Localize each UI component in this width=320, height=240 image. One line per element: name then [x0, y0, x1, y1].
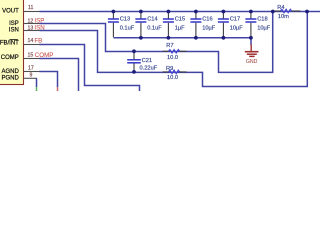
- svg-text:11: 11: [28, 5, 33, 11]
- wire AGND down: [40, 72, 58, 88]
- svg-text:12: 12: [28, 18, 34, 24]
- svg-text:R4: R4: [277, 5, 284, 11]
- svg-text:C14: C14: [147, 16, 157, 22]
- pin AGND (17) pin line: [24, 71, 40, 73]
- junction node C14 bottom: [139, 36, 143, 40]
- IC block U? (sheet part, cropped at left/top): [0, 0, 24, 85]
- svg-text:VOUT: VOUT: [2, 9, 19, 15]
- svg-text:10µF: 10µF: [230, 26, 244, 32]
- junction node C16 top: [194, 10, 198, 14]
- svg-text:AGND: AGND: [1, 69, 19, 75]
- svg-text:R9: R9: [166, 66, 173, 72]
- wire ISN to R9 to R4 right: [40, 12, 308, 87]
- capacitor C18: [245, 12, 270, 37]
- capacitor C14: [135, 12, 162, 37]
- junction node C14 top: [139, 10, 143, 14]
- svg-text:13: 13: [28, 26, 34, 32]
- svg-text:1µF: 1µF: [175, 26, 185, 32]
- svg-text:C18: C18: [257, 16, 267, 22]
- svg-text:C16: C16: [202, 16, 212, 22]
- capacitor C17: [218, 12, 243, 37]
- svg-text:FB: FB: [34, 38, 42, 45]
- pin VOUT (11) pin line: [24, 11, 40, 13]
- capacitor C16: [190, 12, 215, 37]
- junction node C21 top: [132, 49, 136, 53]
- junction node C15 bottom: [167, 36, 171, 40]
- resistor R4: [273, 5, 301, 20]
- svg-text:0.1uF: 0.1uF: [120, 26, 135, 32]
- svg-text:C21: C21: [142, 58, 152, 64]
- svg-text:10µF: 10µF: [257, 26, 271, 32]
- svg-text:C17: C17: [230, 16, 240, 22]
- svg-text:0.1uF: 0.1uF: [147, 26, 162, 32]
- svg-text:14: 14: [28, 38, 34, 44]
- junction node C18 bottom / GND: [249, 36, 253, 40]
- svg-text:9: 9: [30, 72, 33, 78]
- svg-text:10.0: 10.0: [167, 75, 178, 81]
- capacitor C15: [163, 12, 185, 37]
- wire FB down and right: [40, 45, 140, 92]
- junction node C17 bottom: [222, 36, 226, 40]
- wire AGND red tail: [57, 87, 59, 91]
- svg-text:COMP: COMP: [1, 55, 19, 61]
- svg-text:ISP: ISP: [9, 21, 19, 27]
- wire COMP down: [40, 59, 79, 92]
- svg-text:C15: C15: [175, 16, 185, 22]
- junction node R4 right: [305, 10, 309, 14]
- capacitor C21: [127, 52, 158, 71]
- svg-text:GND: GND: [246, 59, 258, 65]
- svg-text:ISN: ISN: [9, 28, 19, 34]
- wire PGND down: [36, 78, 38, 87]
- pin ISP (12) pin line: [24, 23, 40, 25]
- junction node R4 left: [271, 10, 275, 14]
- pin COMP (15) pin line: [24, 58, 40, 60]
- pin PGND (9) pin line: [24, 77, 38, 79]
- junction node C13 top: [112, 10, 116, 14]
- svg-text:15: 15: [28, 53, 34, 59]
- capacitor C13: [108, 12, 135, 37]
- resistor R7: [163, 43, 187, 61]
- svg-text:PGND: PGND: [1, 75, 19, 81]
- junction node C18 top: [249, 10, 253, 14]
- wire ISP to R7 to R4 left: [40, 12, 273, 73]
- junction node C17 top: [222, 10, 226, 14]
- overline on INT: [10, 39, 18, 41]
- resistor R9: [163, 66, 187, 81]
- wire GND stub: [250, 38, 252, 45]
- svg-text:R7: R7: [166, 43, 173, 49]
- wire capacitor ground rail: [114, 37, 252, 39]
- junction node C21 bottom: [132, 70, 136, 74]
- wire PGND green tail: [36, 87, 38, 91]
- pin FB/INT (14) pin line: [24, 44, 40, 46]
- svg-text:10m: 10m: [278, 14, 289, 20]
- junction node C16 bottom: [194, 36, 198, 40]
- pin ISN (13) pin line: [24, 30, 40, 32]
- svg-text:10µF: 10µF: [202, 26, 216, 32]
- wire VOUT top rail: [40, 11, 320, 13]
- svg-text:0.22uF: 0.22uF: [140, 65, 158, 71]
- svg-text:C13: C13: [120, 16, 130, 22]
- svg-text:17: 17: [28, 65, 34, 71]
- svg-text:FB/INT: FB/INT: [0, 41, 19, 47]
- junction node C15 top: [167, 10, 171, 14]
- ground GND power symbol: [245, 45, 259, 65]
- svg-text:10.0: 10.0: [167, 55, 178, 61]
